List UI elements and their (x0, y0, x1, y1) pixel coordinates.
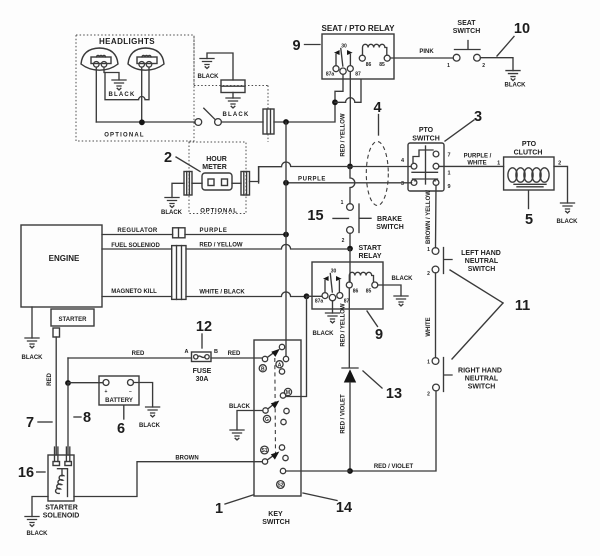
seat relay coil terminal 85 (384, 55, 390, 61)
key switch pole3 wiper arrow (268, 456, 273, 460)
svg-text:BLACK: BLACK (109, 92, 136, 98)
wire lamp1 right terminal to headlight ground (104, 67, 119, 80)
wire lamp2 right terminal joining ground run with hop (105, 67, 149, 100)
dashed ellipse harness 4 (366, 142, 388, 206)
junction dot headlight bus (139, 119, 145, 125)
wire capacitor bottom to ground (232, 93, 234, 99)
pointer dash for 16 (37, 471, 45, 473)
fuse end circle B (205, 355, 209, 359)
wire start relay 86 down to diode (348, 288, 350, 367)
start relay contact flag 87a (323, 276, 329, 281)
svg-text:SWITCH: SWITCH (468, 266, 496, 273)
key switch circled label B (259, 365, 266, 373)
key switch pole1 arrow head (271, 349, 280, 357)
brake switch contact 2 (347, 227, 354, 234)
right neutral switch contact 1 (432, 358, 439, 365)
wire red/violet row to key switch S2 (286, 470, 350, 472)
wire purple row to pto 3 (286, 182, 412, 184)
start relay terminal circle 87a (322, 293, 328, 299)
headlight lamp 2 filament coil (142, 55, 151, 57)
svg-text:85: 85 (366, 289, 372, 295)
wire node to battery positive (68, 382, 103, 384)
connector hour meter right pins (244, 172, 247, 196)
headlight lamp 2 terminal 1 (139, 62, 145, 68)
svg-text:13: 13 (386, 386, 402, 402)
engine box (21, 225, 102, 307)
svg-text:START: START (359, 245, 383, 252)
wire battery negative to ground (134, 383, 153, 408)
wire magneto node down to key switch M (286, 296, 307, 396)
ground starter solenoid (25, 517, 39, 527)
headlight lamp 1 terminal 1 (94, 62, 100, 68)
headlight lamp 1 bulb holder (91, 57, 111, 64)
key switch pole2 contact low (281, 419, 286, 424)
wire seat relay 85 to seat switch (390, 57, 453, 59)
svg-text:8: 8 (83, 410, 91, 426)
seat relay contact stem 87 (349, 55, 351, 66)
svg-text:2: 2 (164, 150, 172, 166)
svg-text:30A: 30A (196, 376, 209, 383)
svg-text:PURPLE /: PURPLE / (464, 154, 492, 160)
svg-text:HEADLIGHTS: HEADLIGHTS (99, 37, 155, 46)
svg-text:A: A (185, 349, 189, 355)
svg-text:RED / VIOLET: RED / VIOLET (341, 394, 347, 434)
wire red feed down to battery node (67, 358, 69, 383)
dashed wire headlight box to capacitor and connector (194, 37, 268, 142)
seat/pto relay U9 box (322, 34, 394, 79)
wire pto row 4 horizontal (259, 162, 412, 167)
svg-text:87: 87 (355, 72, 361, 78)
wire light switch to connector (221, 121, 263, 123)
pto clutch L5 box (504, 157, 554, 190)
left neutral switch contact 2 (432, 266, 439, 273)
connector regulator (173, 228, 185, 238)
svg-text:RED / YELLOW: RED / YELLOW (341, 113, 347, 157)
key switch pole3 contact top (279, 445, 284, 450)
start relay coil winding (349, 272, 373, 282)
key switch pole2 arrow head (271, 401, 280, 409)
wire hour meter output up to pto row (250, 167, 259, 182)
svg-text:BROWN: BROWN (175, 456, 198, 462)
wire hour meter to ground (172, 183, 184, 197)
light switch contact right (215, 119, 222, 126)
seat relay contact flag 87a (334, 50, 340, 55)
svg-text:1: 1 (447, 63, 450, 69)
svg-text:BLACK: BLACK (22, 355, 44, 361)
start relay terminal circle common (329, 294, 335, 300)
svg-text:S1: S1 (261, 448, 267, 454)
wire junction to coil 86 with hop over 87 line (335, 80, 361, 102)
solenoid contact bar (58, 469, 68, 476)
svg-text:S2: S2 (277, 483, 283, 489)
solenoid stud left head (53, 462, 60, 466)
key switch pole3 contact S1-left (262, 459, 267, 464)
pto switch terminal circle 7 (433, 151, 439, 157)
svg-text:1: 1 (427, 247, 430, 253)
svg-text:16: 16 (18, 465, 34, 481)
svg-text:+: + (105, 389, 108, 395)
wire diode anode down to red/violet row (349, 383, 351, 472)
svg-text:−: − (129, 389, 132, 395)
svg-text:BLACK: BLACK (27, 531, 49, 537)
pointer dash for 8 (74, 416, 81, 418)
key switch pole1 contact mid (283, 356, 288, 361)
key switch pole2 contact mid (284, 408, 289, 413)
pto switch internal bar mid (412, 171, 438, 173)
junction dot pto row (347, 164, 353, 170)
pointer line for 2 (176, 157, 200, 172)
pto switch internal link 4 to 7 (413, 150, 433, 163)
wire regulator row left (102, 234, 173, 236)
wire seat switch 2 to ground (480, 58, 513, 71)
wire regulator purple row to bus (185, 234, 286, 236)
wire brake switch 2 to start relay node (349, 233, 351, 248)
start relay coil terminal 86 (346, 282, 352, 288)
svg-text:86: 86 (353, 289, 359, 295)
svg-text:RED: RED (228, 351, 241, 357)
svg-text:5: 5 (525, 212, 533, 228)
ground engine (25, 338, 39, 348)
starter solenoid box (48, 455, 74, 501)
svg-text:3: 3 (401, 181, 404, 187)
svg-text:NEUTRAL: NEUTRAL (465, 376, 499, 383)
start relay contact stem 87a (324, 281, 326, 293)
solenoid plunger coil (56, 475, 64, 493)
wire start relay 85 to ground (378, 285, 401, 296)
svg-text:STARTER: STARTER (45, 505, 78, 512)
svg-text:RED / VIOLET: RED / VIOLET (374, 464, 414, 470)
ground hour meter (165, 198, 179, 208)
connector internal pins (267, 109, 271, 134)
svg-text:ENGINE: ENGINE (49, 254, 80, 263)
key switch pole3 contact mid (283, 455, 288, 460)
battery box (99, 376, 139, 405)
svg-text:FUEL SOLENIOD: FUEL SOLENIOD (111, 243, 160, 249)
ground capacitor upper (200, 59, 214, 69)
wire connector to main bus junction (274, 102, 335, 122)
pto switch terminal circle 4 (411, 163, 417, 169)
svg-text:RIGHT HAND: RIGHT HAND (458, 368, 502, 375)
svg-text:BLACK: BLACK (223, 112, 250, 118)
headlight bus wire (96, 121, 195, 123)
ground key switch G (230, 430, 244, 440)
svg-text:1: 1 (215, 501, 223, 517)
left neutral switch plunger bar (444, 248, 453, 274)
svg-text:BRAKE: BRAKE (377, 216, 402, 223)
svg-text:RED / YELLOW: RED / YELLOW (341, 303, 347, 347)
fuse end circle A (194, 355, 198, 359)
wire solenoid case to ground (32, 497, 48, 517)
hour meter body (202, 173, 232, 190)
pointer line for 12 (201, 334, 203, 348)
brake switch contact 1 (347, 204, 354, 211)
svg-text:B: B (261, 366, 265, 372)
pointer line for 14 (303, 493, 337, 501)
svg-text:14: 14 (336, 500, 352, 516)
key switch pole3 arrow head (271, 452, 280, 460)
key switch pole1 wiper arrow (268, 353, 274, 357)
svg-text:10: 10 (514, 21, 530, 37)
pto clutch core lines (514, 184, 546, 187)
svg-text:BLACK: BLACK (139, 423, 161, 429)
wire seat relay 87 down to pto circuit (349, 72, 351, 163)
pointer line for 13 (363, 371, 382, 388)
junction dot purple row (283, 180, 289, 186)
wire seat relay common down to junction (335, 74, 343, 102)
svg-text:OPTIONAL: OPTIONAL (200, 209, 237, 215)
headlight lamp 1 filament coil (97, 55, 106, 57)
headlight lamp 2 bulb holder (137, 57, 157, 64)
wire clutch terminal 2 to ground (554, 166, 568, 203)
seat relay contact stem 87a (335, 55, 337, 66)
seat relay terminal circle 87 (347, 66, 353, 72)
diode D13 cathode bar (342, 367, 358, 369)
svg-text:11: 11 (515, 298, 530, 314)
pointer line for 1 (225, 495, 253, 504)
svg-text:RED: RED (132, 351, 145, 357)
wire engine case to ground (31, 307, 33, 338)
connector engine harness tall (172, 246, 186, 300)
start relay contact flag 87 (336, 276, 342, 281)
start relay contact stem 87 (338, 281, 340, 293)
connector harness headlight circuit (263, 109, 274, 134)
seat relay coil terminal 86 (359, 55, 365, 61)
svg-text:NEUTRAL: NEUTRAL (465, 258, 499, 265)
junction dot relay accessory node (332, 99, 338, 105)
solenoid stud right shaft (66, 447, 69, 462)
wire fuse B to key switch B (211, 357, 262, 359)
junction dot purple bus (283, 232, 289, 238)
svg-text:85: 85 (379, 62, 385, 68)
pto switch terminal circle 1 (433, 163, 439, 169)
svg-text:12: 12 (196, 319, 212, 335)
svg-text:9: 9 (375, 327, 383, 343)
key switch box (254, 340, 301, 496)
svg-text:7: 7 (447, 153, 450, 159)
svg-text:PURPLE: PURPLE (298, 177, 326, 183)
wire brake line hop over purple row (350, 166, 355, 203)
wire fuel solenoid row left (102, 248, 172, 250)
ground start relay common (326, 313, 340, 323)
svg-text:OPTIONAL: OPTIONAL (104, 133, 145, 139)
svg-text:SWITCH: SWITCH (468, 384, 496, 391)
svg-text:30: 30 (341, 44, 347, 50)
svg-text:KEY: KEY (268, 511, 283, 518)
svg-text:2: 2 (558, 161, 561, 167)
key switch pole1 contact top (279, 344, 284, 349)
wire white between neutral switches (435, 273, 437, 358)
svg-text:2: 2 (482, 63, 485, 69)
svg-text:2: 2 (342, 238, 345, 244)
key switch circled label S2 (277, 481, 285, 489)
svg-text:15: 15 (307, 208, 323, 224)
svg-text:BLACK: BLACK (161, 210, 183, 216)
svg-text:G: G (265, 417, 269, 423)
pointer dash for 9 (305, 44, 321, 46)
seat switch contact 1 (453, 54, 460, 61)
svg-text:METER: METER (202, 164, 227, 171)
headlight lamp 2 terminal 2 (146, 62, 152, 68)
seat relay terminal circle common (340, 68, 346, 74)
wire right neutral 2 down to red/violet row (350, 391, 436, 471)
key switch circled label G (263, 415, 270, 423)
svg-text:BLACK: BLACK (505, 83, 527, 89)
svg-text:RED: RED (47, 373, 53, 386)
wire key G to ground (237, 411, 262, 431)
svg-text:FUSE: FUSE (193, 368, 212, 375)
wire node down to start relay coil 86 (349, 249, 351, 282)
start relay terminal circle 87 (337, 293, 343, 299)
key switch pole2 wiper arrow (268, 405, 273, 409)
seat relay wiper arm from 30 to common (341, 49, 343, 67)
pointer line for 6 (123, 406, 125, 419)
svg-text:3: 3 (474, 109, 482, 125)
fuse F12 body (192, 352, 212, 362)
pto clutch coil loops (508, 168, 549, 182)
wire node to start relay 87a (307, 295, 322, 297)
headlight lamp 1 housing (81, 48, 118, 70)
svg-text:M: M (286, 390, 290, 396)
svg-text:1: 1 (447, 171, 450, 177)
svg-text:WHITE: WHITE (467, 161, 486, 167)
wire node down to solenoid (67, 383, 69, 455)
wire white/black row with hop over bus (186, 292, 307, 297)
pto switch internal bar low (413, 179, 438, 181)
start relay coil terminal 85 (372, 282, 378, 288)
svg-text:BLACK: BLACK (392, 276, 414, 282)
svg-text:87a: 87a (315, 299, 324, 305)
pointer line lower for 11 (452, 303, 503, 359)
key switch dashed gang line (274, 358, 277, 453)
brake switch plunger bar (359, 204, 371, 233)
pointer line for 3 (445, 120, 474, 141)
svg-text:86: 86 (366, 62, 372, 68)
noise suppressor capacitor block (221, 80, 245, 93)
seat switch actuator bar (455, 41, 481, 50)
junction dot start relay feed (347, 246, 353, 252)
pointer line for 4 (378, 115, 380, 136)
start relay wiper arm (330, 274, 332, 293)
pto switch center column (425, 146, 427, 184)
junction dot magneto kill node (304, 293, 310, 299)
svg-text:SWITCH: SWITCH (453, 28, 481, 35)
wire start relay common to ground (332, 301, 334, 313)
svg-text:1: 1 (497, 161, 500, 167)
connector regulator pin divider (178, 228, 180, 238)
svg-text:BROWN / YELLOW: BROWN / YELLOW (426, 190, 432, 244)
hour meter optional dashed enclosure (189, 142, 246, 214)
key switch circled label A (276, 361, 283, 369)
connector hour meter left pins (187, 172, 190, 196)
svg-text:MAGNETO KILL: MAGNETO KILL (111, 289, 157, 295)
svg-text:BLACK: BLACK (557, 219, 579, 225)
pointer line for 5 (528, 191, 530, 209)
key switch pole1 contact low (279, 369, 284, 374)
pointer line upper for 11 (450, 270, 503, 303)
svg-text:BATTERY: BATTERY (105, 398, 133, 404)
key switch circled label M (284, 388, 291, 396)
ground pto clutch (561, 203, 575, 213)
svg-text:4: 4 (373, 100, 381, 116)
right neutral switch contact 2 (433, 384, 440, 391)
battery terminal positive (103, 380, 109, 386)
starter box (51, 309, 94, 326)
svg-text:2: 2 (427, 271, 430, 277)
svg-text:REGULATOR: REGULATOR (117, 228, 158, 234)
wire pto 9 down to left neutral switch (435, 185, 438, 247)
svg-text:7: 7 (26, 415, 34, 431)
wire pto 1 to clutch (439, 165, 504, 167)
solenoid stud right head (65, 462, 72, 466)
svg-text:1: 1 (427, 360, 430, 366)
seat relay terminal circle 87a (333, 66, 339, 72)
wire lamp1 left terminal down to optional bus (95, 67, 97, 122)
start relay U9b box (312, 262, 383, 309)
headlight lamp 2 housing (128, 48, 164, 70)
key switch pole2 contact left (263, 408, 268, 413)
solenoid internal output lead (67, 470, 69, 497)
svg-text:SOLENOID: SOLENOID (43, 513, 80, 520)
svg-text:WHITE: WHITE (426, 317, 432, 336)
seat relay contact flag 87 (347, 50, 353, 55)
hour meter window left (208, 179, 214, 186)
wire hour meter left lead (192, 182, 202, 184)
headlights optional dashed enclosure (76, 35, 194, 141)
junction dot red/violet row (347, 468, 353, 474)
starter terminal stub (53, 328, 60, 337)
pto switch S3 box (408, 143, 444, 191)
svg-text:30: 30 (331, 269, 337, 275)
svg-text:SWITCH: SWITCH (262, 519, 290, 526)
ground seat switch (506, 71, 520, 81)
svg-text:LEFT HAND: LEFT HAND (461, 250, 501, 257)
svg-text:BLACK: BLACK (198, 74, 220, 80)
key switch circled label S1 (261, 446, 269, 454)
svg-text:WHITE / BLACK: WHITE / BLACK (199, 290, 245, 296)
svg-text:STARTER: STARTER (59, 317, 88, 323)
solenoid stud left shaft (55, 447, 58, 462)
svg-text:SWITCH: SWITCH (412, 136, 440, 143)
right neutral switch plunger bar (444, 358, 453, 392)
diode D13 body (344, 369, 356, 382)
fuse element curve (198, 356, 205, 358)
wire magneto kill row left (102, 296, 172, 298)
pointer line for 9 start relay (367, 311, 378, 327)
headlight lamp 1 terminal 2 (101, 62, 107, 68)
accessory bus x286 vertical (285, 122, 287, 356)
wire starter to solenoid (55, 337, 57, 455)
pto switch terminal circle 3 (411, 180, 417, 186)
hour meter window right (222, 179, 228, 186)
connector hour meter left (184, 172, 192, 196)
svg-text:9: 9 (292, 38, 300, 54)
svg-text:6: 6 (117, 421, 125, 437)
svg-text:PINK: PINK (419, 49, 434, 55)
svg-text:A: A (278, 362, 282, 368)
connector engine harness pins (177, 246, 182, 300)
pointer dash for 15 (333, 217, 349, 219)
svg-text:PURPLE: PURPLE (200, 228, 228, 234)
wire pto row 4 from hour meter with hop at bus (258, 167, 260, 183)
ground start relay 85 (394, 296, 408, 306)
svg-text:RED / YELLOW: RED / YELLOW (199, 243, 243, 249)
connector hour meter right (241, 172, 250, 196)
wire lamp2 left terminal down to optional bus (141, 67, 143, 120)
key switch pole2 contact M-top (280, 393, 285, 398)
seat relay coil winding (363, 44, 387, 55)
ground headlights (112, 80, 126, 90)
key switch pole1 contact B (262, 356, 267, 361)
